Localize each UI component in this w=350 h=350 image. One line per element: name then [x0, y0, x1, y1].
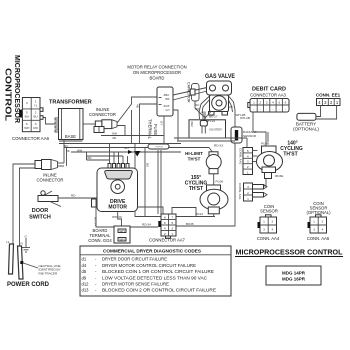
svg-text:GN: GN [228, 105, 233, 109]
svg-text:WH: WH [112, 132, 117, 136]
connector AA2 [239, 148, 258, 175]
svg-text:CONNECTOR AA6: CONNECTOR AA6 [12, 136, 50, 141]
svg-text:DRYER MOTOR SENSE FAILURE: DRYER MOTOR SENSE FAILURE [102, 282, 169, 287]
wire transformer to inline connector 1 [83, 123, 95, 125]
svg-text:TH'ST: TH'ST [283, 151, 297, 157]
svg-text:MICROPROCESSOR CONTROL: MICROPROCESSOR CONTROL [236, 248, 343, 257]
svg-text:GY: GY [166, 108, 170, 112]
svg-text:WH-24: WH-24 [206, 119, 216, 123]
svg-text:2: 2 [259, 100, 261, 104]
svg-text:THERM: THERM [155, 146, 163, 148]
node MICROPROCESSOR CONTROL heading [235, 248, 343, 257]
svg-text:2: 2 [164, 232, 166, 236]
wire AA7 top stub [137, 207, 163, 214]
svg-text:DOOR: DOOR [32, 208, 49, 214]
svg-text:CONN. AA5: CONN. AA5 [307, 236, 330, 241]
svg-text:d9: d9 [82, 275, 87, 280]
svg-text:3: 3 [171, 227, 173, 231]
svg-text:7: 7 [171, 216, 173, 220]
connector AA7 [149, 214, 185, 243]
svg-text:CONN. AA2: CONN. AA2 [239, 148, 243, 165]
connector EE1 [317, 99, 341, 106]
connector small mid harness [94, 127, 104, 133]
wire L1 power line [13, 164, 35, 244]
inline connector 1 (upper) [89, 107, 117, 129]
svg-text:RD 34: RD 34 [94, 217, 98, 226]
connector AA6 [12, 98, 50, 142]
svg-text:CONN. AA4: CONN. AA4 [257, 236, 280, 241]
svg-text:GAS VALVE: GAS VALVE [205, 74, 235, 80]
fuse F1 thermal fuse [148, 119, 170, 149]
svg-text:4: 4 [272, 100, 274, 104]
svg-text:RIB TRACER: RIB TRACER [39, 271, 58, 275]
harness wire y147 [64, 147, 149, 149]
node MOTOR RELAY CONNECTION label [127, 65, 186, 81]
svg-text:TH'ST: TH'ST [188, 157, 201, 162]
svg-text:BU: BU [33, 115, 37, 119]
wire gas valve left fan [195, 96, 211, 121]
wire WH mid label [101, 132, 164, 141]
svg-text:1: 1 [263, 220, 265, 224]
svg-text:HI-LIMIT: HI-LIMIT [185, 151, 203, 156]
wire harness right verticals [174, 138, 247, 148]
wire relay left down [140, 104, 158, 144]
svg-text:d4: d4 [82, 263, 87, 268]
svg-text:1: 1 [247, 197, 249, 201]
svg-text:BLOCKED COIN 1 OR CONTROL CIRC: BLOCKED COIN 1 OR CONTROL CIRCUIT FAILUR… [102, 269, 214, 274]
harness wire y152 [71, 151, 181, 153]
thermostat 155 cycling [200, 185, 228, 217]
wire inline connector 2 up to transformer [64, 140, 71, 167]
svg-text:CONNECTOR: CONNECTOR [89, 112, 116, 117]
valve GAS VALVE [205, 74, 235, 115]
svg-text:BOARD: BOARD [150, 76, 165, 81]
svg-text:1: 1 [247, 171, 249, 175]
svg-text:1: 1 [253, 100, 255, 104]
svg-text:MICROPROCESSOR: MICROPROCESSOR [13, 55, 20, 123]
svg-text:CONN. GG4: CONN. GG4 [88, 238, 112, 243]
svg-text:RD: RD [71, 194, 76, 198]
thermostat hi-limit [185, 151, 221, 174]
connector AA1 [238, 183, 267, 201]
svg-text:BLOCKED COIN 2 OR CONTROL CIRC: BLOCKED COIN 2 OR CONTROL CIRCUIT FAILUR… [102, 288, 216, 293]
connector AA4 coin sensor [257, 215, 280, 241]
svg-text:WH-3C: WH-3C [112, 215, 123, 219]
svg-text:-: - [279, 107, 280, 111]
svg-text:COMMERCIAL DRYER DIAGNOSTIC CO: COMMERCIAL DRYER DIAGNOSTIC CODES [103, 249, 201, 254]
harness wire y143 [59, 143, 181, 145]
igniter [189, 112, 226, 139]
svg-text:4: 4 [26, 101, 28, 105]
svg-text:SENSOR: SENSOR [260, 209, 278, 214]
node CAPACITOR [187, 82, 207, 118]
wire radiant sensor down to connector AA7 [176, 143, 235, 226]
svg-text:THERMAL: THERMAL [148, 119, 153, 140]
node 140 cycling thermostat label [280, 141, 303, 158]
wire door switch to AA7 (RD-34) [58, 194, 158, 228]
harness wire y160 [87, 159, 111, 161]
svg-text:-: - [260, 107, 261, 111]
svg-text:5: 5 [278, 100, 280, 104]
svg-text:RD: RD [33, 126, 38, 130]
svg-text:d13: d13 [82, 288, 90, 293]
svg-text:MOTOR: MOTOR [108, 204, 127, 210]
svg-text:TH'ST: TH'ST [189, 186, 203, 192]
svg-text:WH: WH [119, 237, 124, 241]
svg-text:TRANSFORMER: TRANSFORMER [49, 100, 92, 106]
ground symbol [22, 248, 30, 253]
wire N neutral line [20, 168, 36, 246]
svg-text:5: 5 [247, 149, 249, 153]
node GN ground arrows [124, 146, 141, 157]
table diagnostic codes [80, 246, 231, 296]
motor M1 drive motor [92, 164, 138, 212]
svg-text:1: 1 [171, 232, 173, 236]
svg-text:5: 5 [171, 221, 173, 225]
wire thermal fuse to AA7 [158, 150, 161, 214]
wire AA3 down to 140 thermostat [240, 112, 266, 148]
svg-text:2: 2 [247, 165, 249, 169]
svg-text:6: 6 [285, 100, 287, 104]
svg-text:ON MICROPROCESSOR: ON MICROPROCESSOR [133, 70, 181, 75]
wire EE1 to battery [316, 106, 337, 120]
svg-text:8: 8 [164, 216, 166, 220]
svg-text:-: - [285, 107, 286, 111]
svg-text:d5: d5 [82, 269, 87, 274]
svg-text:CONN. EE1: CONN. EE1 [316, 93, 341, 98]
node neutral tracer callout [20, 261, 60, 275]
svg-text:RD3E: RD3E [275, 174, 283, 178]
svg-text:GN: GN [124, 146, 129, 150]
svg-text:RD-34: RD-34 [142, 223, 151, 227]
svg-text:GY: GY [160, 121, 164, 125]
connector AA3 debit card [248, 99, 289, 113]
wire 140 top feed [267, 132, 269, 142]
svg-text:(OPTIONAL): (OPTIONAL) [293, 127, 319, 132]
svg-text:2: 2 [247, 191, 249, 195]
svg-text:BK-17: BK-17 [209, 115, 218, 119]
switch door switch [29, 191, 61, 221]
svg-text:FUSE: FUSE [153, 124, 158, 135]
svg-text:CONTROL: CONTROL [4, 68, 13, 121]
svg-text:MDG 14PR: MDG 14PR [282, 271, 306, 276]
svg-text:DRYER DOOR CIRCUIT FAILURE: DRYER DOOR CIRCUIT FAILURE [102, 257, 167, 262]
svg-text:RC: RC [195, 103, 200, 107]
svg-text:WH-2B: WH-2B [240, 116, 250, 120]
wire AA6 to transformer [43, 118, 55, 125]
svg-text:CONN. AA1: CONN. AA1 [238, 183, 242, 200]
power cord [6, 235, 28, 280]
wire inline connector 1 to relay and down [117, 97, 157, 144]
svg-text:CONNECTOR AA3: CONNECTOR AA3 [250, 93, 286, 98]
svg-text:WH: WH [119, 229, 124, 233]
relay K1 motor relay board connector [157, 87, 173, 116]
svg-text:BK12: BK12 [196, 212, 204, 216]
svg-text:1: 1 [313, 220, 315, 224]
svg-text:YL: YL [34, 104, 38, 108]
svg-text:3: 3 [313, 228, 315, 232]
svg-text:BU: BU [25, 115, 29, 119]
svg-text:MOTOR RELAY CONNECTION: MOTOR RELAY CONNECTION [127, 65, 186, 70]
svg-text:CONNECTOR AA7: CONNECTOR AA7 [149, 238, 185, 243]
wire BK drop [87, 152, 93, 160]
wire thermal fuse to hi-limit [168, 144, 223, 152]
sensor RADIANT SENSOR [231, 127, 257, 143]
svg-text:4: 4 [322, 228, 324, 232]
node COIN SENSOR label [260, 204, 278, 214]
svg-text:2: 2 [322, 220, 324, 224]
svg-text:3D2: 3D2 [190, 121, 194, 127]
svg-text:d1: d1 [82, 257, 87, 262]
wire relay right to gas valve [173, 88, 207, 142]
transformer T1 [49, 100, 92, 142]
connector AA5 coin sensor optional [307, 215, 330, 241]
harness wire y156 [87, 155, 124, 157]
inline connector 2 (lower) [35, 160, 64, 183]
svg-text:4: 4 [247, 154, 249, 158]
svg-text:3: 3 [263, 228, 265, 232]
svg-text:SWITCH: SWITCH [29, 215, 51, 221]
svg-text:WH: WH [24, 126, 29, 130]
wire hi-limit to 155 [214, 174, 224, 185]
svg-text:BASE: BASE [65, 134, 76, 139]
terminal board terminal GG4 [88, 226, 130, 243]
thermostat 140 cycling [257, 142, 284, 179]
wire gas valve right down [228, 96, 245, 127]
svg-text:MDG 16PR: MDG 16PR [282, 277, 306, 282]
svg-text:3: 3 [266, 100, 268, 104]
svg-text:PU36: PU36 [216, 180, 224, 184]
svg-text:-: - [272, 107, 273, 111]
svg-text:-: - [266, 107, 267, 111]
svg-text:RD-33: RD-33 [214, 144, 223, 148]
svg-text:DRYER MOTOR CONTROL CIRCUIT FA: DRYER MOTOR CONTROL CIRCUIT FAILURE [102, 263, 196, 268]
wire relay bottom to thermal fuse [163, 116, 165, 144]
svg-text:PU3B: PU3B [261, 142, 269, 146]
battery BT1 (optional) [293, 113, 319, 131]
svg-text:BK35: BK35 [186, 222, 194, 226]
node 155 cycling thermostat label [185, 175, 208, 192]
wire long vertical x135 [135, 144, 215, 217]
svg-text:(OPTIONAL): (OPTIONAL) [307, 210, 332, 215]
wire motor feeds [110, 144, 128, 164]
svg-text:3: 3 [247, 185, 249, 189]
svg-text:SENSOR: SENSOR [243, 134, 257, 138]
svg-text:3: 3 [247, 160, 249, 164]
svg-text:4: 4 [272, 228, 274, 232]
node MICROPROCESSOR CONTROL left vertical label [4, 55, 21, 123]
wire WH-3C motor to board terminal [112, 212, 123, 227]
svg-text:4: 4 [164, 227, 166, 231]
svg-text:2: 2 [272, 220, 274, 224]
wire 140 bottom to conn AA1 [253, 179, 267, 187]
svg-text:d12: d12 [82, 282, 90, 287]
svg-text:CONNECTOR: CONNECTOR [37, 178, 64, 183]
node MDG model box [266, 266, 321, 285]
svg-text:LOW VOLTAGE DETECTED LESS THAN: LOW VOLTAGE DETECTED LESS THAN 90 VAC [102, 275, 207, 280]
svg-text:-: - [253, 107, 254, 111]
wire x145 vertical [144, 148, 146, 217]
svg-text:6: 6 [164, 221, 166, 225]
svg-text:4B: 4B [136, 104, 140, 108]
svg-text:N: N [21, 242, 23, 246]
svg-text:POWER CORD: POWER CORD [7, 282, 50, 288]
svg-text:IGNITER: IGNITER [209, 127, 222, 131]
node DEBIT CARD label [250, 87, 286, 98]
node COIN SENSOR (OPTIONAL) label [307, 201, 332, 215]
